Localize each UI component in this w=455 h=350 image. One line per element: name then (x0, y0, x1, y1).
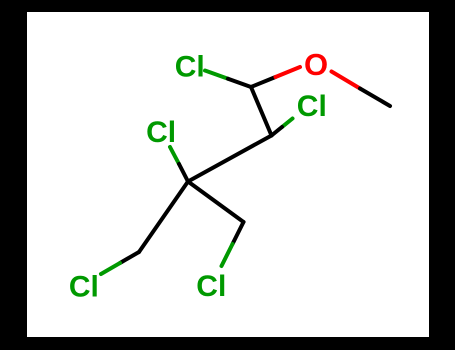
bond C4-Cl4 black half (233, 222, 244, 244)
bond O-CH3 black half (360, 89, 390, 107)
bond C3-C4 (188, 182, 244, 223)
bond C1-O red half (276, 67, 301, 77)
svg-text:Cl: Cl (175, 51, 205, 84)
bond C2-Cl2 green half (282, 119, 293, 128)
bond C5-Cl5 black half (120, 252, 139, 263)
bond C1-C2 (251, 87, 272, 136)
bond C3-Cl3 black half (179, 164, 188, 182)
svg-text:Cl: Cl (146, 116, 176, 149)
bond C1-O black half (251, 77, 276, 87)
bond Cl1-C1 black half (228, 79, 251, 87)
bond C5-Cl5 green half (101, 263, 120, 274)
svg-text:Cl: Cl (69, 270, 99, 303)
svg-text:Cl: Cl (297, 90, 327, 123)
bond Cl1-C1 green half (205, 71, 228, 79)
svg-text:Cl: Cl (196, 270, 226, 303)
bond O-CH3 red half (332, 72, 361, 89)
bond C2-Cl2 black half (272, 127, 283, 136)
bond C2-C3 (188, 136, 272, 182)
bond C4-Cl4 green half (222, 244, 233, 266)
bond C3-Cl3 green half (170, 147, 179, 164)
bond C3-C5 (139, 182, 188, 253)
svg-text:O: O (304, 47, 328, 82)
